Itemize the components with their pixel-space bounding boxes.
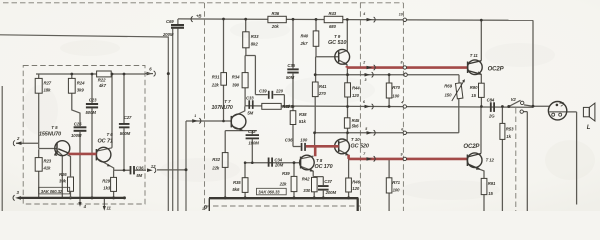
svg-text:100M: 100M — [248, 141, 259, 146]
svg-text:C37: C37 — [324, 179, 332, 184]
svg-text:R71: R71 — [392, 180, 400, 185]
svg-text:680: 680 — [329, 24, 337, 29]
svg-text:120: 120 — [352, 186, 360, 191]
svg-text:107NU70: 107NU70 — [212, 105, 233, 111]
svg-text:500M: 500M — [86, 110, 97, 115]
svg-text:R34: R34 — [232, 75, 240, 80]
svg-text:GC 510: GC 510 — [328, 40, 346, 46]
svg-text:1k: 1k — [506, 134, 511, 139]
svg-text:51k: 51k — [299, 119, 307, 124]
svg-text:C23: C23 — [89, 98, 97, 103]
svg-text:100: 100 — [300, 137, 308, 142]
svg-text:500M: 500M — [120, 131, 131, 136]
svg-text:3AK 060.32: 3AK 060.32 — [41, 189, 63, 194]
svg-text:R22: R22 — [98, 78, 106, 83]
svg-text:C33: C33 — [246, 95, 254, 100]
svg-text:200M: 200M — [325, 190, 337, 195]
svg-text:T 10: T 10 — [351, 137, 360, 142]
svg-text:C32: C32 — [248, 129, 256, 134]
svg-text:3AK 060.33: 3AK 060.33 — [258, 190, 280, 195]
svg-text:C36: C36 — [136, 165, 144, 170]
svg-text:11: 11 — [202, 207, 206, 211]
svg-text:R36: R36 — [272, 11, 280, 16]
svg-text:OC2P: OC2P — [463, 144, 480, 150]
svg-text:1k3: 1k3 — [103, 186, 111, 191]
svg-text:C35: C35 — [287, 63, 295, 68]
svg-text:R39: R39 — [282, 171, 290, 176]
svg-text:T 8: T 8 — [316, 158, 323, 163]
svg-text:GC 520: GC 520 — [351, 144, 369, 150]
svg-text:150: 150 — [445, 93, 453, 98]
svg-text:C26: C26 — [74, 121, 82, 126]
svg-text:R53: R53 — [506, 126, 514, 131]
svg-text:R40: R40 — [301, 34, 309, 39]
svg-text:20M: 20M — [274, 162, 284, 167]
svg-text:1: 1 — [194, 114, 196, 118]
svg-text:C69: C69 — [166, 19, 174, 24]
svg-text:3k9: 3k9 — [77, 88, 85, 93]
svg-text:2: 2 — [362, 61, 365, 65]
svg-text:R24: R24 — [77, 81, 85, 86]
svg-text:15: 15 — [471, 93, 476, 98]
svg-text:R46: R46 — [352, 180, 360, 185]
svg-text:8k2: 8k2 — [251, 42, 259, 47]
svg-text:Bu: Bu — [560, 101, 564, 105]
svg-text:5M: 5M — [136, 173, 142, 178]
svg-text:390: 390 — [232, 82, 240, 87]
svg-text:9: 9 — [401, 152, 403, 156]
svg-text:R35: R35 — [233, 180, 241, 185]
svg-text:50M: 50M — [286, 75, 295, 80]
svg-text:100: 100 — [392, 94, 400, 99]
svg-text:R69: R69 — [444, 84, 452, 89]
svg-text:C27: C27 — [124, 115, 132, 120]
svg-text:OC 170: OC 170 — [315, 164, 333, 170]
svg-text:22k: 22k — [279, 181, 288, 186]
svg-text:R45: R45 — [352, 118, 360, 123]
svg-text:R42: R42 — [302, 176, 310, 181]
svg-text:2G: 2G — [488, 113, 495, 118]
svg-text:V2: V2 — [511, 97, 517, 102]
svg-text:100: 100 — [393, 187, 401, 192]
svg-text:R27: R27 — [44, 81, 52, 86]
svg-text:R26: R26 — [59, 172, 67, 177]
svg-text:22k: 22k — [211, 82, 220, 87]
svg-text:4: 4 — [362, 12, 365, 16]
svg-text:C84: C84 — [487, 98, 495, 103]
svg-text:R29: R29 — [102, 178, 110, 183]
svg-text:T 12: T 12 — [486, 157, 495, 162]
svg-text:T 7: T 7 — [224, 99, 231, 104]
svg-text:5k6: 5k6 — [352, 123, 360, 128]
svg-text:330: 330 — [303, 188, 311, 193]
svg-text:R70: R70 — [392, 85, 400, 90]
svg-text:L: L — [587, 125, 591, 131]
svg-text:T 6: T 6 — [107, 132, 114, 137]
svg-text:39k: 39k — [59, 178, 67, 183]
svg-text:6k8: 6k8 — [286, 104, 294, 109]
svg-text:100M: 100M — [71, 133, 82, 138]
svg-text:11: 11 — [107, 205, 112, 210]
svg-text:8: 8 — [401, 61, 403, 65]
svg-text:R38: R38 — [299, 112, 307, 117]
svg-text:4: 4 — [400, 101, 403, 105]
svg-text:R43: R43 — [329, 11, 337, 16]
svg-text:2k7: 2k7 — [300, 41, 309, 46]
svg-text:5k6: 5k6 — [232, 187, 240, 192]
svg-text:200M: 200M — [162, 32, 174, 37]
svg-text:T 11: T 11 — [470, 53, 479, 58]
svg-text:10: 10 — [399, 12, 403, 16]
svg-text:+B: +B — [196, 14, 201, 19]
svg-text:C39: C39 — [259, 89, 267, 94]
svg-text:C36: C36 — [285, 137, 293, 142]
svg-text:OC 71: OC 71 — [98, 139, 113, 145]
svg-text:12: 12 — [151, 164, 156, 169]
svg-text:220: 220 — [275, 89, 284, 94]
svg-text:R90: R90 — [470, 85, 478, 90]
svg-text:R23: R23 — [44, 159, 52, 164]
svg-text:R31: R31 — [212, 75, 220, 80]
svg-text:4k7: 4k7 — [98, 83, 107, 88]
svg-text:41k: 41k — [43, 166, 52, 171]
svg-text:T 9: T 9 — [334, 34, 341, 39]
svg-text:OC2P: OC2P — [488, 66, 505, 72]
svg-text:5M: 5M — [247, 111, 253, 116]
